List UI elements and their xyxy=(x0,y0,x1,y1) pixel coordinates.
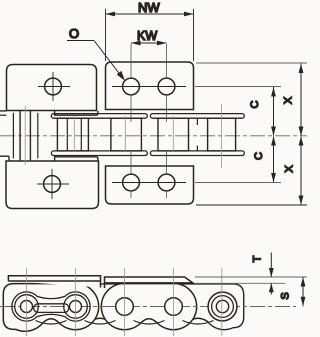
S dimension xyxy=(301,277,306,306)
joint centerlines (side view) xyxy=(27,268,222,336)
left attachment bar (side) xyxy=(8,276,100,288)
hole vertical centerlines xyxy=(131,44,167,198)
svg-text:T: T xyxy=(252,255,264,262)
extension line: top hole line (C top) xyxy=(195,86,281,88)
secondary plate contour curves (overlapping plates) xyxy=(36,321,214,325)
T dimension xyxy=(195,276,307,278)
clip middle slot xyxy=(34,304,69,313)
svg-text:S: S xyxy=(280,292,292,299)
X dimension top xyxy=(299,64,304,137)
hole left (bottom-middle plate) xyxy=(123,174,140,191)
roller rect joint5 xyxy=(208,118,236,151)
outer bar below left plate (bottom) xyxy=(55,157,98,161)
inner link bar B bottom xyxy=(150,151,244,156)
svg-text:O: O xyxy=(69,26,79,41)
inner link plate L4 (joints 4-5, behind) xyxy=(152,284,243,330)
left end stubs xyxy=(0,110,7,112)
NW dimension xyxy=(106,9,194,61)
svg-text:X: X xyxy=(284,165,296,173)
top-left attachment plate xyxy=(7,65,97,111)
holes horizontal centerline xyxy=(112,86,186,88)
right end roller circles xyxy=(208,292,237,321)
svg-text:C: C xyxy=(249,100,261,108)
outer link plate L3 (joints 3-4, K attachment link) xyxy=(101,284,196,330)
C dimension bottom xyxy=(271,136,276,183)
roller circles left link xyxy=(15,295,39,319)
svg-text:NW: NW xyxy=(138,0,160,15)
outer link plate L1 (joints 1-2, left attachment link) xyxy=(3,284,98,332)
pin circles middle link xyxy=(116,298,134,316)
bottom-left attachment plate xyxy=(6,161,99,209)
roller rect joint4 xyxy=(158,118,189,151)
inner link plate L2 (joints 2-3, behind) xyxy=(54,284,145,328)
roller rect joint2 xyxy=(57,118,88,151)
top-middle attachment plate xyxy=(106,62,194,110)
hole (top-left plate) xyxy=(45,78,62,95)
KW dimension xyxy=(131,41,167,46)
X dimension bottom xyxy=(299,136,304,205)
inner link bar A top (joints 2-3) xyxy=(51,114,147,119)
outer link plate end stubs right of middle plate xyxy=(196,119,198,125)
outer bar below left plate (top) xyxy=(55,111,98,116)
svg-text:C: C xyxy=(253,152,265,160)
chain axis centerline (top view) xyxy=(0,135,307,137)
side view chain centerline xyxy=(0,306,296,308)
extension line: plate bottom edge (X bottom) xyxy=(196,204,307,206)
extension line: bottom hole line (C bottom) xyxy=(195,182,281,184)
inner link bar B top (joints 4-5) xyxy=(150,114,244,119)
C dimension top xyxy=(271,87,276,136)
inner link bar A bottom xyxy=(51,151,147,156)
joint vertical centerlines xyxy=(25,104,221,168)
bush verticals at pin 1 xyxy=(12,113,14,159)
svg-text:X: X xyxy=(283,96,295,104)
holes horizontal centerline xyxy=(112,182,186,184)
hole right (top-middle plate) xyxy=(158,78,175,95)
roller rect joint3 xyxy=(111,118,141,151)
spring clip outline on left link xyxy=(12,292,90,321)
hole right (bottom-middle plate) xyxy=(158,174,175,191)
middle attachment bar (side) xyxy=(105,277,193,288)
hole crosshair xyxy=(38,86,70,88)
chain band: pin 1 verticals xyxy=(20,111,30,160)
hole (bottom-left plate) xyxy=(44,176,61,193)
svg-text:KW: KW xyxy=(137,29,157,43)
hole crosshair xyxy=(37,183,69,185)
hole left (top-middle plate) xyxy=(123,78,140,95)
bottom-middle attachment plate xyxy=(106,166,194,204)
extension line: plate top edge (X top) xyxy=(196,62,307,64)
pin circles left link xyxy=(21,301,33,313)
